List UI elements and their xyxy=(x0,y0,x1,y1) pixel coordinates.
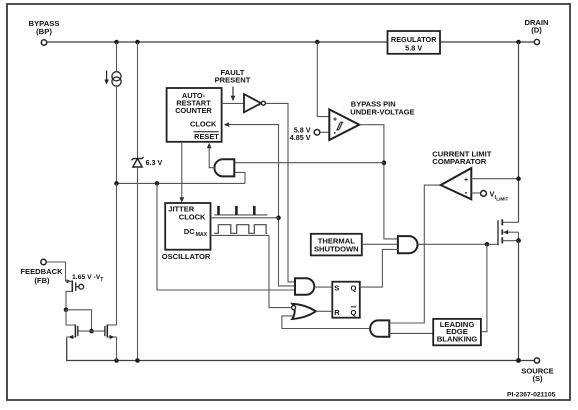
node 5.8V/4.85V reference input xyxy=(290,125,330,142)
wire LEB output to AND input xyxy=(389,332,433,334)
wire gate drive to MOSFET xyxy=(418,243,499,245)
svg-text:+: + xyxy=(464,177,468,184)
transistor mirror right xyxy=(105,183,117,360)
wire counter to inverter xyxy=(222,102,244,104)
block auto-restart counter xyxy=(167,88,222,142)
wire fault present arrow xyxy=(231,87,236,102)
wire source vertical xyxy=(518,241,520,361)
svg-text:(S): (S) xyxy=(532,374,543,383)
junction dot bypass line left xyxy=(114,181,119,186)
svg-text:6.3 V: 6.3 V xyxy=(146,158,163,167)
svg-text:CLOCK: CLOCK xyxy=(179,212,206,221)
waveform jitter clock xyxy=(214,206,267,215)
svg-text:BLANKING: BLANKING xyxy=(437,334,478,343)
junction dot MOSFET source xyxy=(516,238,521,243)
flip-flop S R latch xyxy=(332,282,360,318)
svg-text:(BP): (BP) xyxy=(36,27,52,36)
junction dot UV output to reset-and xyxy=(382,160,387,165)
wire S-AND output to latch S xyxy=(314,286,332,288)
svg-text:COUNTER: COUNTER xyxy=(175,106,212,115)
node SOURCE (S) terminal xyxy=(521,358,554,383)
svg-text:+: + xyxy=(333,117,337,124)
wire OR lower input from LEB AND xyxy=(282,316,370,329)
svg-text:CLOCK: CLOCK xyxy=(190,120,217,129)
junction dot clock net xyxy=(276,216,281,221)
junction dot bottom rail zener xyxy=(135,358,140,363)
svg-text:1.65 V -V: 1.65 V -V xyxy=(72,274,101,281)
svg-text:(D): (D) xyxy=(531,25,542,34)
svg-text:Q: Q xyxy=(351,308,357,317)
wire clock line down to S-AND xyxy=(279,218,296,286)
node FEEDBACK (FB) terminal xyxy=(20,259,63,285)
wire reset-and lower input riser xyxy=(235,172,246,183)
wire oscillator dcmax output to OR gate xyxy=(211,235,292,307)
label FAULT PRESENT xyxy=(215,68,251,85)
current source IFB xyxy=(104,42,121,183)
waveform DCmax xyxy=(214,225,267,234)
svg-text:DC: DC xyxy=(184,227,195,236)
junction dot gate drive LEB branch xyxy=(485,242,490,247)
svg-text:S: S xyxy=(334,283,339,292)
junction dot bypass line EN branch xyxy=(155,181,160,186)
wire LEB input riser from gate node xyxy=(481,244,487,331)
svg-text:RESET: RESET xyxy=(194,132,219,141)
wire clock feedback to counter xyxy=(224,122,279,218)
block thermal shutdown xyxy=(311,234,362,256)
svg-text:UNDER-VOLTAGE: UNDER-VOLTAGE xyxy=(350,107,414,116)
wire CL comparator to LEB AND input xyxy=(389,185,441,323)
svg-text:PRESENT: PRESENT xyxy=(215,76,251,85)
transistor Q1 output MOSFET xyxy=(498,219,519,245)
wire CL plus input to drain xyxy=(471,178,518,180)
junction dot top rail zener xyxy=(135,40,140,45)
block leading edge blanking xyxy=(433,319,481,345)
block oscillator xyxy=(162,203,211,261)
junction dot FB mirror top xyxy=(64,308,69,313)
wire top rail from regulator to drain xyxy=(440,41,534,43)
node VILIMIT reference xyxy=(471,190,508,202)
node BYPASS (BP) terminal xyxy=(28,19,59,45)
svg-text:T: T xyxy=(100,277,103,283)
junction dot top rail drain branch xyxy=(516,40,521,45)
junction dot top rail current source xyxy=(114,40,119,45)
wire UV comparator plus input riser xyxy=(317,42,329,117)
and-gate gate driver (3-input) xyxy=(398,236,418,253)
and-gate S driver (3-input) xyxy=(295,278,314,295)
transistor mirror left xyxy=(66,310,78,340)
junction dot CL sense on drain xyxy=(516,176,521,181)
svg-text:FEEDBACK: FEEDBACK xyxy=(20,267,63,276)
junction dot bottom rail left column xyxy=(114,358,119,363)
and-gate reset driver (points left) xyxy=(214,159,234,176)
wire mirror gate line xyxy=(78,330,105,332)
zener diode 6.3 V xyxy=(132,42,163,361)
or-gate R driver xyxy=(292,304,316,319)
wire bypass sense line y=183.4 xyxy=(117,182,246,184)
svg-text:(FB): (FB) xyxy=(34,276,50,285)
junction dot bottom rail source xyxy=(516,358,521,363)
node DRAIN (D) terminal xyxy=(524,18,548,45)
svg-text:COMPARATOR: COMPARATOR xyxy=(432,157,487,166)
op-amp U1 bypass pin under-voltage comparator xyxy=(329,99,414,140)
wire UV comparator output net xyxy=(359,125,398,239)
svg-text:SHUTDOWN: SHUTDOWN xyxy=(314,244,359,253)
svg-text:PI-2367-021105: PI-2367-021105 xyxy=(507,392,556,399)
wire drain vertical to MOSFET xyxy=(518,42,520,222)
wire top rail from BP to regulator xyxy=(47,41,388,43)
svg-text:Q: Q xyxy=(351,283,357,292)
svg-text:4.85 V: 4.85 V xyxy=(290,133,311,142)
wire reset arrow from gate to counter xyxy=(207,143,215,168)
wire thermal to big AND xyxy=(362,243,398,245)
label 1.65 V - VT xyxy=(72,274,103,283)
transistor FB sense 1.65V-VT xyxy=(46,262,83,310)
junction dot top rail UV sense xyxy=(315,40,320,45)
svg-text:OSCILLATOR: OSCILLATOR xyxy=(162,252,211,261)
svg-text:LIMIT: LIMIT xyxy=(496,197,508,202)
junction dot mirror gate xyxy=(89,329,94,334)
wire mirror gate riser xyxy=(66,310,92,331)
wire oscillator clock output xyxy=(211,217,279,219)
wire UV output to reset-and input xyxy=(235,162,384,164)
wire counter to oscillator arrow xyxy=(179,142,184,203)
op-amp current limit comparator (points left) xyxy=(432,149,491,199)
svg-text:MAX: MAX xyxy=(196,232,208,238)
svg-text:5.8 V: 5.8 V xyxy=(405,44,422,53)
and-gate current limit (points left) xyxy=(370,320,389,336)
wire enable line to S-AND xyxy=(157,183,295,290)
regulator REGULATOR 5.8 V xyxy=(388,31,441,54)
svg-text:R: R xyxy=(334,308,340,317)
wire inverter output to S-AND xyxy=(266,103,295,282)
wire bottom rail xyxy=(67,339,535,361)
wire latch Q to big AND xyxy=(360,249,398,287)
inverter fault gate xyxy=(244,94,265,112)
wire OR output to latch R xyxy=(316,310,332,312)
